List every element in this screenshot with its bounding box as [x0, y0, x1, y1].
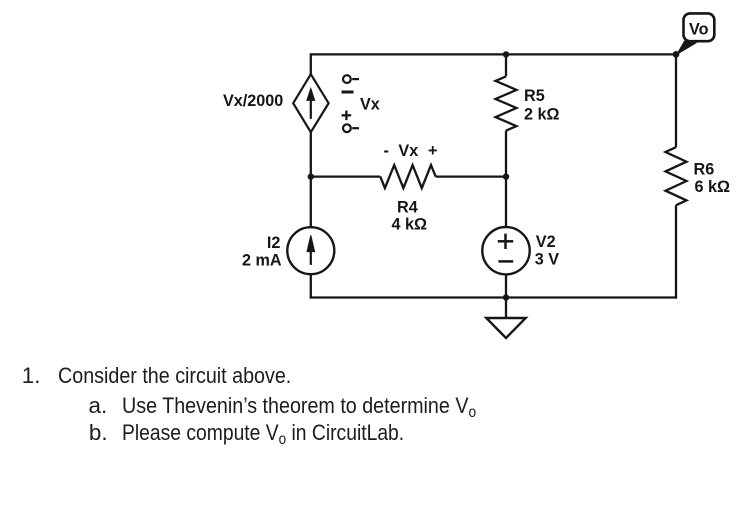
junction node B middle wire right — [503, 173, 509, 179]
wire left branch lower (I2 bottom to bottom rail) — [310, 274, 312, 298]
wire left branch mid (diamond bottom to I2 top) — [310, 132, 312, 227]
junction node at left of middle wire — [308, 173, 314, 179]
wire mid branch lower (V2 bottom to ground node) — [505, 274, 507, 297]
svg-text:Vx: Vx — [398, 142, 418, 160]
open terminal upper circle (Vx minus terminal) — [343, 75, 359, 83]
svg-text:4 kΩ: 4 kΩ — [392, 216, 428, 234]
voltage source V2 circle — [482, 227, 529, 274]
minus sign of Vx — [342, 91, 354, 94]
svg-text:R6: R6 — [694, 160, 715, 178]
wire mid branch (node B to V2 top) — [505, 177, 507, 227]
svg-text:3 V: 3 V — [535, 250, 560, 268]
plus sign inside V2 — [498, 234, 513, 249]
current source I2 circle — [287, 227, 334, 274]
dependent current source Vx/2000 diamond — [293, 74, 328, 132]
arrow inside I2 — [307, 235, 315, 265]
wire right branch lower (R6 to bottom rail) — [675, 205, 677, 298]
svg-text:2 mA: 2 mA — [242, 252, 282, 270]
svg-text:Vx/2000: Vx/2000 — [223, 92, 283, 110]
problem text — [0, 0, 752, 1]
svg-text:2 kΩ: 2 kΩ — [524, 105, 560, 123]
junction node at ground — [503, 294, 509, 300]
open terminal lower circle (Vx plus terminal) — [343, 124, 359, 132]
wire bottom rail — [310, 296, 677, 298]
ground symbol triangle — [486, 318, 525, 338]
svg-text:-: - — [384, 142, 389, 160]
svg-text:V2: V2 — [536, 233, 556, 251]
junction node at R5 top — [503, 51, 509, 57]
svg-text:+: + — [428, 142, 437, 160]
minus sign inside V2 — [498, 260, 513, 263]
wire mid branch upper (top rail to R5) — [505, 54, 507, 76]
arrow inside dependent source — [307, 89, 315, 119]
svg-text:R4: R4 — [397, 198, 418, 216]
wire left branch upper (top rail to diamond top) — [310, 53, 312, 74]
wire middle right segment (R4 to node B) — [436, 175, 506, 177]
junction node Vo at top right — [673, 51, 680, 58]
svg-text:R5: R5 — [524, 87, 545, 105]
svg-text:I2: I2 — [267, 234, 281, 252]
svg-text:Vx: Vx — [360, 95, 380, 113]
wire top rail from dependent source to Vo node — [311, 53, 676, 55]
Vo label box — [684, 13, 715, 41]
Vo callout wedge — [676, 41, 698, 56]
ground stem — [505, 298, 507, 319]
plus sign of Vx — [342, 111, 352, 121]
wire mid branch (R5 bottom to node B) — [505, 131, 507, 177]
wire right branch upper (Vo node to R6) — [675, 53, 677, 147]
resistor R5 zigzag — [496, 76, 517, 130]
resistor R4 zigzag — [380, 165, 435, 188]
wire middle left segment (node A to R4) — [311, 175, 381, 177]
resistor R6 zigzag — [666, 147, 687, 205]
svg-text:6 kΩ: 6 kΩ — [695, 178, 731, 196]
svg-text:Vo: Vo — [689, 20, 709, 38]
